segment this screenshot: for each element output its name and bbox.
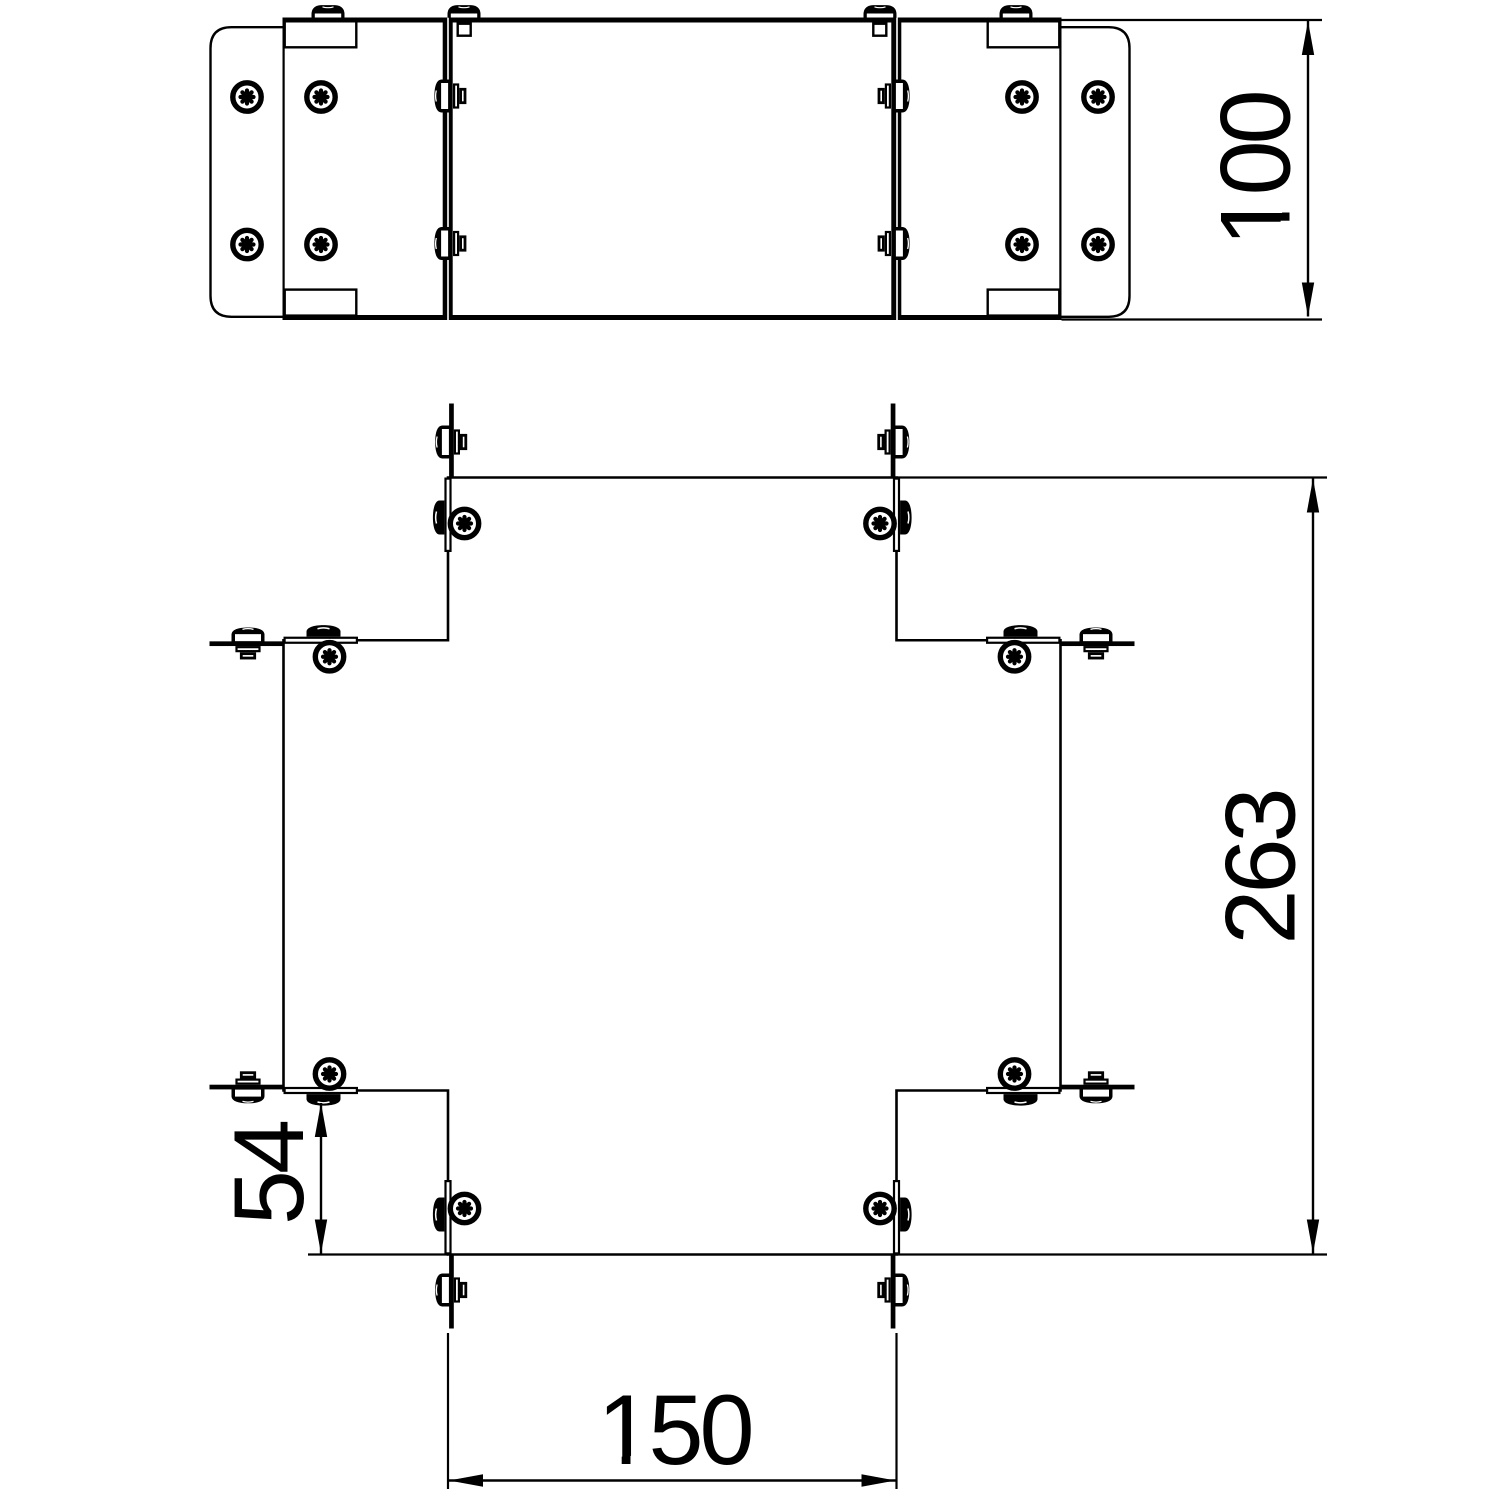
svg-text:54: 54 [213, 1121, 324, 1225]
svg-text:150: 150 [597, 1374, 751, 1485]
svg-text:100: 100 [1200, 92, 1311, 246]
svg-text:263: 263 [1205, 791, 1316, 944]
